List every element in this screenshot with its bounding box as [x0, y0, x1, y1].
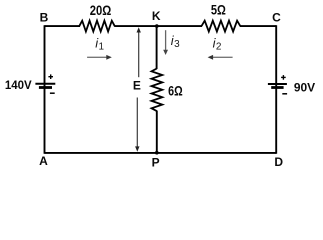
wire branch K to R3 — [156, 26, 158, 69]
current arrow i2 — [208, 55, 233, 60]
resistor R2 5ohm — [202, 21, 241, 32]
node K label — [152, 9, 161, 23]
current label i1 — [95, 35, 104, 52]
label 20ohm value — [90, 2, 112, 18]
node A label — [39, 154, 48, 168]
battery V2 minus sign — [282, 93, 287, 95]
node C label — [272, 10, 281, 24]
node P label — [152, 156, 160, 170]
label 90V value — [294, 81, 316, 95]
label 5ohm value — [211, 2, 226, 18]
svg-text:i1: i1 — [95, 35, 104, 52]
svg-text:20Ω: 20Ω — [90, 2, 112, 18]
svg-text:D: D — [274, 155, 283, 168]
battery V2 long plate — [268, 83, 287, 85]
battery V2 short plate — [271, 86, 283, 89]
wire branch R3 to P — [156, 111, 158, 153]
node K dot — [155, 24, 159, 28]
battery V1 short plate — [39, 86, 52, 89]
emf arrow E upper segment — [137, 27, 141, 77]
svg-text:i3: i3 — [171, 33, 180, 50]
battery V2 plus sign — [281, 75, 286, 80]
wire top-middle R1 to K to R2 — [114, 25, 202, 27]
battery V1 minus sign — [50, 92, 55, 94]
battery V1 long plate — [35, 83, 55, 85]
resistor R1 20ohm — [79, 21, 114, 32]
current arrow i3 — [163, 30, 168, 55]
wire top-left B to R1 — [45, 25, 81, 27]
node D label — [274, 155, 283, 169]
battery V1 plus sign — [48, 74, 53, 79]
node B label — [40, 11, 49, 25]
svg-text:E: E — [133, 79, 141, 93]
wire top-right R2 to C — [240, 25, 276, 27]
svg-text:K: K — [152, 9, 161, 23]
svg-text:A: A — [39, 154, 48, 168]
svg-text:i2: i2 — [213, 35, 222, 52]
node P dot — [155, 151, 159, 155]
resistor R3 6ohm — [152, 69, 163, 112]
label 140V value — [5, 78, 33, 92]
wire left side B to A — [44, 25, 46, 154]
current label i3 — [171, 33, 180, 50]
svg-text:6Ω: 6Ω — [168, 82, 183, 98]
wire right side C to D — [275, 25, 277, 154]
wire bottom A to D — [45, 152, 277, 154]
svg-text:140V: 140V — [5, 78, 33, 92]
emf label E — [133, 79, 141, 93]
current label i2 — [213, 35, 222, 52]
svg-text:90V: 90V — [294, 81, 316, 95]
svg-text:5Ω: 5Ω — [211, 2, 226, 18]
svg-text:C: C — [272, 10, 281, 24]
emf arrow E lower segment — [135, 98, 139, 152]
svg-text:P: P — [152, 156, 160, 168]
svg-text:B: B — [40, 11, 49, 25]
label 6ohm value — [168, 82, 183, 98]
current arrow i1 — [87, 55, 112, 60]
